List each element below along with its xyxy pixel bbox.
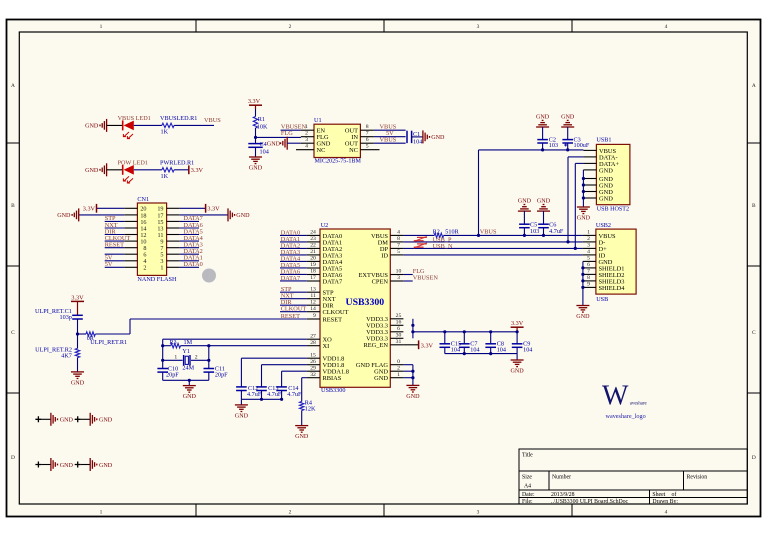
svg-text:19: 19 bbox=[310, 262, 316, 268]
differential pair marker bbox=[414, 243, 427, 248]
CN1 pin 14 bbox=[124, 225, 146, 232]
wire VDD1.8 (C12) bbox=[241, 357, 307, 359]
resistor R4 bbox=[300, 399, 316, 412]
op-amp U1 MIC2025-75-1BM bbox=[314, 117, 361, 164]
svg-text:25: 25 bbox=[396, 313, 402, 319]
capacitor C11 bbox=[204, 366, 229, 381]
wire 3.3V (CN1 pin19) bbox=[180, 207, 206, 209]
wire NXT bbox=[280, 298, 307, 300]
svg-text:31: 31 bbox=[396, 339, 402, 345]
svg-text:NAND FLASH: NAND FLASH bbox=[137, 276, 177, 283]
svg-text:..\USB3300 ULPI Board.SchDoc: ..\USB3300 ULPI Board.SchDoc bbox=[551, 499, 629, 505]
svg-text:R3: R3 bbox=[169, 339, 176, 346]
svg-text:CLKOUT: CLKOUT bbox=[281, 306, 307, 313]
connector USB2 (USB) bbox=[596, 222, 636, 303]
wire bbox=[301, 411, 303, 426]
svg-text:USB_N: USB_N bbox=[433, 243, 453, 250]
svg-text:104: 104 bbox=[523, 346, 532, 353]
ground (C5 top) bbox=[518, 199, 532, 212]
wire VDD3.3 rail bbox=[413, 331, 517, 333]
svg-text:SHIELD4: SHIELD4 bbox=[599, 285, 626, 292]
wire bbox=[281, 129, 301, 131]
wire DATA6 bbox=[180, 227, 199, 229]
svg-text:MIC2025-75-1BM: MIC2025-75-1BM bbox=[315, 158, 362, 164]
wire DATA0 bbox=[180, 266, 199, 268]
svg-text:103: 103 bbox=[549, 142, 558, 149]
wire FLG bbox=[403, 274, 412, 276]
node bbox=[161, 359, 164, 362]
wire GND (CN1 pin18) bbox=[79, 214, 125, 216]
svg-text:5: 5 bbox=[587, 256, 590, 262]
svg-text:GND: GND bbox=[576, 314, 590, 320]
CN1 pin 8 bbox=[124, 245, 146, 252]
U2 pin 7 DP bbox=[380, 243, 404, 253]
ground (C2 top) bbox=[536, 114, 550, 127]
CN1 pin 9 bbox=[160, 239, 179, 246]
wire USB2 shield gnds bbox=[582, 261, 584, 305]
wire DATA2 bbox=[180, 253, 199, 255]
svg-text:GND: GND bbox=[60, 463, 74, 469]
node bbox=[411, 324, 414, 327]
svg-text:7: 7 bbox=[397, 243, 400, 249]
node bbox=[542, 234, 545, 237]
CN1 pin 16 bbox=[124, 219, 146, 226]
svg-text:GND: GND bbox=[236, 213, 250, 219]
ground (C12) bbox=[235, 405, 249, 419]
node bbox=[566, 148, 569, 151]
node FLG junction bbox=[254, 136, 257, 139]
wire U2 gnd group bbox=[403, 364, 413, 366]
svg-text:GND: GND bbox=[577, 215, 591, 221]
svg-text:1K: 1K bbox=[161, 129, 169, 136]
svg-text:103: 103 bbox=[530, 228, 539, 235]
svg-text:104: 104 bbox=[497, 346, 506, 353]
resistor ULPI_RET.R1 bbox=[86, 332, 127, 346]
svg-text:5: 5 bbox=[366, 144, 369, 150]
ground (C4) bbox=[249, 157, 263, 171]
U2 pin 26 VDD1.8 bbox=[307, 359, 344, 369]
svg-text:U1: U1 bbox=[314, 117, 322, 124]
U2 pin 2 GND bbox=[374, 365, 403, 375]
USB1 pin 6 GND bbox=[583, 182, 613, 189]
svg-text:VBUSEN: VBUSEN bbox=[413, 275, 439, 282]
USB2 pin 9 SHIELD4 bbox=[583, 282, 625, 292]
svg-text:1: 1 bbox=[397, 372, 400, 378]
capacitor C15 bbox=[440, 332, 462, 354]
svg-text:4: 4 bbox=[587, 249, 590, 255]
svg-text:30: 30 bbox=[396, 333, 402, 339]
title block bbox=[519, 449, 747, 504]
mounting hole ground bbox=[35, 413, 73, 426]
wire bbox=[188, 380, 190, 385]
ground (R4) bbox=[295, 426, 309, 440]
differential pair marker bbox=[414, 237, 427, 242]
USB2 pin 2 D- bbox=[583, 236, 605, 246]
wire VBUSEN bbox=[403, 280, 412, 282]
capacitor C1 bbox=[407, 131, 422, 146]
CN1 pin 3 bbox=[160, 258, 179, 265]
node bbox=[411, 330, 414, 333]
svg-text:VBUS LED1: VBUS LED1 bbox=[118, 115, 151, 122]
svg-text:15: 15 bbox=[310, 352, 316, 358]
CN1 pin 12 bbox=[124, 232, 146, 239]
capacitor C12 bbox=[236, 385, 262, 400]
node bbox=[581, 266, 584, 269]
U2 pin 18 DATA6 bbox=[307, 269, 342, 279]
wire bbox=[105, 260, 125, 262]
U2 pin 10 EXTVBUS bbox=[359, 269, 404, 279]
wire VDD1.8 (C13) bbox=[262, 364, 307, 366]
frame column ticks top bbox=[195, 20, 197, 33]
USB2 pin 7 SHIELD2 bbox=[583, 269, 625, 279]
svg-text:3: 3 bbox=[305, 137, 308, 143]
CN1 pin 17 bbox=[157, 212, 179, 219]
CN1 pin 18 bbox=[124, 212, 146, 219]
svg-text:Date:: Date: bbox=[522, 492, 535, 498]
svg-text:2: 2 bbox=[397, 365, 400, 371]
node bbox=[581, 273, 584, 276]
USB1 pin 5 GND bbox=[583, 176, 613, 183]
CN1 pin 10 bbox=[124, 239, 146, 246]
connector CN1 (NAND FLASH) bbox=[137, 196, 177, 283]
USB2 pin 6 SHIELD1 bbox=[583, 262, 625, 272]
U2 pin 30 VDD3.3 bbox=[366, 333, 403, 343]
svg-text:A4: A4 bbox=[524, 484, 531, 490]
wire bbox=[77, 319, 79, 348]
CN1 pin 4 bbox=[124, 258, 146, 265]
svg-text:USB3300: USB3300 bbox=[346, 297, 385, 308]
svg-text:RBIAS: RBIAS bbox=[323, 375, 342, 382]
wire bbox=[255, 109, 257, 117]
svg-text:3: 3 bbox=[397, 275, 400, 281]
svg-text:1: 1 bbox=[174, 355, 177, 361]
capacitor C6 bbox=[538, 211, 564, 235]
U2 pin 3 CPEN bbox=[372, 275, 404, 285]
node bbox=[581, 279, 584, 282]
wire FLG bbox=[256, 136, 301, 138]
svg-text:W: W bbox=[602, 381, 629, 412]
LED VBUS LED1 bbox=[118, 115, 151, 138]
svg-text:1: 1 bbox=[160, 265, 163, 272]
resistor R3 bbox=[163, 339, 209, 348]
wire RESET bbox=[130, 318, 307, 320]
svg-text:28: 28 bbox=[310, 340, 316, 346]
svg-text:A: A bbox=[11, 83, 15, 89]
wire bbox=[105, 253, 125, 255]
U2 pin 24 DATA0 bbox=[307, 230, 342, 240]
CN1 pin 20 bbox=[124, 206, 146, 213]
svg-text:Drawn By:: Drawn By: bbox=[652, 499, 678, 505]
U2 pin 31 REG_EN bbox=[364, 339, 404, 349]
svg-text:RESET: RESET bbox=[281, 313, 300, 320]
svg-text:Title: Title bbox=[522, 453, 533, 459]
U2 pin 5 ID bbox=[381, 249, 403, 259]
svg-text:GND: GND bbox=[510, 368, 524, 374]
capacitor C4 bbox=[248, 141, 268, 155]
U2 pin 19 DATA5 bbox=[307, 262, 342, 272]
svg-text:GND: GND bbox=[536, 114, 550, 120]
node bbox=[411, 376, 414, 379]
U2 pin 27 XO bbox=[307, 333, 332, 343]
svg-text:CLKOUT: CLKOUT bbox=[323, 309, 349, 316]
wire bbox=[516, 354, 518, 360]
ground (U1 pin3) bbox=[267, 137, 287, 150]
node bbox=[541, 148, 544, 151]
svg-text:4: 4 bbox=[397, 230, 400, 236]
U2 pin 9 RESET bbox=[307, 313, 342, 323]
svg-text:File:: File: bbox=[522, 499, 533, 505]
svg-text:GND: GND bbox=[267, 142, 281, 148]
wire DM rail bbox=[403, 241, 583, 243]
node bbox=[411, 370, 414, 373]
svg-text:10K: 10K bbox=[257, 124, 268, 131]
svg-text:13: 13 bbox=[310, 286, 316, 292]
svg-text:1M: 1M bbox=[184, 339, 193, 346]
USB2 pin 5 GND bbox=[583, 256, 613, 266]
svg-text:Number: Number bbox=[552, 475, 571, 481]
svg-text:1K: 1K bbox=[161, 173, 169, 180]
wire bbox=[105, 266, 125, 268]
svg-text:510R: 510R bbox=[445, 229, 459, 236]
capacitor C7 bbox=[459, 332, 480, 354]
U1 pin 2 FLG bbox=[301, 131, 329, 141]
wire VDD3.3 vertical bbox=[412, 319, 414, 339]
svg-text:1: 1 bbox=[100, 24, 103, 30]
U2 pin 16 VDD3.3 bbox=[366, 320, 403, 330]
svg-text:USB: USB bbox=[596, 296, 608, 303]
svg-text:POW LED1: POW LED1 bbox=[118, 160, 148, 167]
svg-text:VBUS: VBUS bbox=[380, 137, 397, 144]
IC U2 USB3300 bbox=[320, 222, 390, 394]
svg-text:3: 3 bbox=[587, 243, 590, 249]
USB2 pin 3 D+ bbox=[583, 243, 607, 253]
U1 pin 5 NC bbox=[349, 144, 379, 154]
wire STP bbox=[280, 291, 307, 293]
node bbox=[582, 177, 585, 180]
svg-text:104: 104 bbox=[451, 346, 460, 353]
capacitor C13 bbox=[256, 385, 282, 400]
svg-text:GND: GND bbox=[599, 167, 613, 174]
wire VBUS vertical bbox=[478, 150, 480, 236]
wire VBUS rail bbox=[403, 234, 434, 236]
ground (CN1 left) bbox=[57, 208, 79, 221]
svg-text:ID: ID bbox=[381, 252, 388, 259]
node bbox=[260, 398, 263, 401]
svg-text:12K: 12K bbox=[305, 406, 316, 413]
node bbox=[489, 352, 492, 355]
svg-text:3.3V: 3.3V bbox=[191, 167, 204, 174]
svg-text:8: 8 bbox=[366, 124, 369, 130]
U2 pin 6 VDD3.3 bbox=[366, 326, 403, 336]
wire bbox=[105, 220, 125, 222]
svg-text:14: 14 bbox=[310, 306, 316, 312]
svg-text:3.3V: 3.3V bbox=[511, 320, 524, 327]
U1 pin 4 NC bbox=[296, 144, 325, 154]
svg-text:2: 2 bbox=[289, 24, 292, 30]
capacitor ULPI_RET.C1 bbox=[35, 308, 83, 321]
CN1 pin 1 bbox=[160, 265, 179, 272]
CN1 pin 15 bbox=[157, 219, 179, 226]
svg-text:Sheet: Sheet bbox=[652, 492, 665, 498]
node bbox=[463, 352, 466, 355]
svg-text:26: 26 bbox=[310, 359, 316, 365]
U2 pin 1 GND bbox=[374, 372, 403, 382]
svg-text:104: 104 bbox=[260, 148, 269, 155]
ground (C3 top) bbox=[561, 114, 575, 127]
wire bbox=[174, 124, 214, 126]
svg-text:4.7uF: 4.7uF bbox=[247, 391, 262, 398]
U2 pin 25 VDD3.3 bbox=[366, 313, 403, 323]
svg-text:Size: Size bbox=[522, 475, 532, 481]
svg-text:NC: NC bbox=[349, 147, 358, 154]
svg-text:D: D bbox=[11, 455, 15, 461]
wire RBIAS bbox=[302, 377, 307, 379]
U2 pin 29 VDDA1.8 bbox=[307, 365, 349, 375]
svg-text:CN1: CN1 bbox=[137, 196, 149, 203]
svg-text:C: C bbox=[752, 330, 756, 336]
USB2 pin 4 ID bbox=[583, 249, 606, 259]
wire bbox=[77, 358, 79, 372]
node bbox=[463, 330, 466, 333]
node bbox=[207, 344, 210, 347]
power 3.3V (ULPI_RET) bbox=[71, 294, 84, 315]
power 3.3V bbox=[83, 204, 97, 213]
wire DATA2 bbox=[280, 247, 307, 249]
CN1 pin 5 bbox=[160, 252, 179, 259]
svg-text:6: 6 bbox=[366, 137, 369, 143]
U2 pin 4 VBUS bbox=[371, 230, 403, 240]
svg-text:12: 12 bbox=[310, 299, 316, 305]
wire bbox=[412, 136, 423, 138]
ground (C6 top) bbox=[537, 199, 551, 212]
wire DATA0 bbox=[280, 234, 307, 236]
svg-text:4: 4 bbox=[305, 144, 308, 150]
svg-text:GND: GND bbox=[518, 199, 532, 205]
USB2 pin 1 VBUS bbox=[583, 230, 616, 240]
svg-text:R2: R2 bbox=[433, 229, 440, 236]
svg-text:2: 2 bbox=[289, 510, 292, 516]
ground (VBUS LED) bbox=[85, 119, 107, 132]
svg-text:GND: GND bbox=[374, 375, 388, 382]
svg-text:GND: GND bbox=[99, 463, 113, 469]
svg-text:104: 104 bbox=[413, 138, 422, 145]
svg-text:7: 7 bbox=[366, 131, 369, 137]
capacitor C3 (polarized) bbox=[562, 127, 589, 150]
svg-text:GND: GND bbox=[183, 394, 197, 400]
mounting hole ground bbox=[35, 458, 73, 471]
svg-text:10: 10 bbox=[396, 269, 402, 275]
wire DATA3 bbox=[180, 247, 199, 249]
node bbox=[516, 330, 519, 333]
connector USB1 (USB HOST2) bbox=[596, 137, 630, 213]
U2 pin 12 DIR bbox=[307, 299, 334, 309]
wire bbox=[95, 333, 130, 335]
power 3.3V (REG_EN) bbox=[403, 340, 433, 349]
svg-text:XI: XI bbox=[323, 343, 330, 350]
wire 5V (U1 pin7) bbox=[374, 136, 406, 138]
ground (crystal) bbox=[183, 386, 197, 400]
svg-text:2013/9/28: 2013/9/28 bbox=[551, 492, 575, 498]
USB2 pin 8 SHIELD3 bbox=[583, 275, 625, 285]
svg-text:C4: C4 bbox=[260, 141, 267, 148]
mounting hole ground bbox=[75, 413, 113, 426]
svg-text:B: B bbox=[11, 203, 15, 209]
wire DATA+ bbox=[575, 162, 583, 164]
svg-text:5: 5 bbox=[397, 249, 400, 255]
svg-text:0: 0 bbox=[397, 359, 400, 365]
svg-text:U2: U2 bbox=[321, 222, 329, 229]
svg-text:GND: GND bbox=[537, 199, 551, 205]
svg-text:2: 2 bbox=[587, 236, 590, 242]
ground (POW LED) bbox=[85, 163, 107, 176]
svg-text:29: 29 bbox=[310, 365, 316, 371]
svg-text:9: 9 bbox=[313, 313, 316, 319]
svg-text:4: 4 bbox=[665, 24, 668, 30]
node bbox=[582, 196, 585, 199]
mounting hole ground bbox=[75, 458, 113, 471]
svg-text:3.3V: 3.3V bbox=[71, 294, 84, 301]
svg-text:A: A bbox=[752, 83, 756, 89]
svg-text:FLG: FLG bbox=[281, 130, 293, 137]
wire DATA1 bbox=[280, 241, 307, 243]
svg-text:24: 24 bbox=[310, 230, 316, 236]
svg-text:GND: GND bbox=[85, 124, 99, 130]
svg-text:3.3V: 3.3V bbox=[421, 342, 434, 349]
wire bbox=[107, 124, 123, 126]
svg-text:4.7uF: 4.7uF bbox=[549, 228, 564, 235]
wire bbox=[255, 147, 257, 157]
svg-text:18: 18 bbox=[310, 269, 316, 275]
U1 pin 8 OUT bbox=[345, 124, 374, 134]
frame row ticks right bbox=[747, 142, 760, 144]
wire bbox=[105, 240, 125, 242]
U2 pin 17 DATA7 bbox=[307, 275, 343, 285]
node bbox=[280, 398, 283, 401]
wire caps bottom bbox=[241, 398, 281, 400]
node bbox=[566, 240, 569, 243]
capacitor C5 bbox=[519, 211, 539, 235]
USB1 pin 7 GND bbox=[583, 189, 613, 196]
svg-text:3.3V: 3.3V bbox=[83, 206, 96, 213]
svg-text:4: 4 bbox=[665, 510, 668, 516]
svg-text:REG_EN: REG_EN bbox=[364, 342, 389, 349]
ground (ULPI_RET.R2) bbox=[71, 372, 85, 386]
svg-text:USB2: USB2 bbox=[596, 222, 611, 229]
wire ID rail bbox=[403, 254, 583, 256]
svg-text:3: 3 bbox=[477, 510, 480, 516]
svg-text:GND: GND bbox=[71, 380, 85, 386]
svg-text:6: 6 bbox=[397, 326, 400, 332]
frame row ticks left bbox=[7, 142, 20, 144]
svg-text:7: 7 bbox=[587, 269, 590, 275]
U1 pin 1 EN bbox=[301, 124, 326, 134]
svg-text:22: 22 bbox=[310, 243, 316, 249]
capacitor C2 bbox=[537, 127, 558, 150]
svg-text:C: C bbox=[11, 330, 15, 336]
svg-text:GND: GND bbox=[599, 195, 613, 202]
capacitor C9 bbox=[512, 332, 533, 354]
svg-text:104: 104 bbox=[470, 346, 479, 353]
wire DATA3 bbox=[280, 254, 307, 256]
wire DATA7 bbox=[180, 220, 199, 222]
svg-text:100uF: 100uF bbox=[574, 142, 590, 149]
U1 pin 6 OUT bbox=[345, 137, 374, 147]
node bbox=[161, 344, 164, 347]
wire DATA6 bbox=[280, 273, 307, 275]
wire DATA1 bbox=[180, 260, 199, 262]
U2 pin 21 DATA3 bbox=[307, 249, 342, 259]
svg-text:9: 9 bbox=[587, 282, 590, 288]
